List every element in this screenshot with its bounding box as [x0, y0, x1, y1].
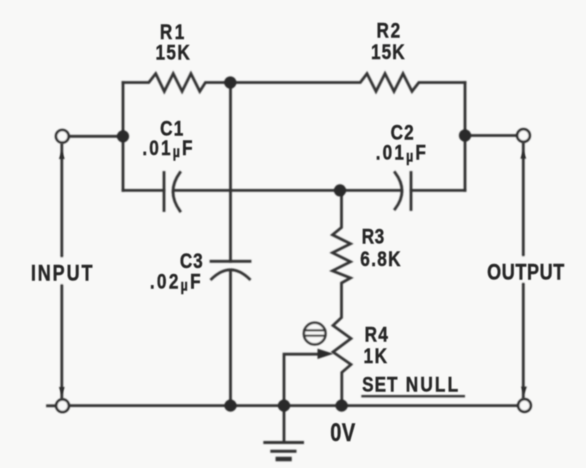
svg-text:.01µF: .01µF	[376, 141, 428, 165]
svg-text:0V: 0V	[330, 419, 356, 447]
svg-text:.02µF: .02µF	[150, 270, 203, 294]
svg-text:SET: SET	[362, 373, 398, 397]
svg-text:15K: 15K	[155, 41, 191, 65]
svg-text:NULL: NULL	[406, 373, 460, 397]
svg-text:R3: R3	[362, 225, 385, 249]
svg-text:INPUT: INPUT	[31, 262, 95, 286]
svg-text:OUTPUT: OUTPUT	[487, 261, 565, 285]
svg-text:6.8K: 6.8K	[360, 247, 402, 271]
svg-text:1K: 1K	[364, 344, 389, 368]
svg-text:15K: 15K	[371, 40, 406, 64]
svg-text:.01µF: .01µF	[142, 136, 194, 160]
